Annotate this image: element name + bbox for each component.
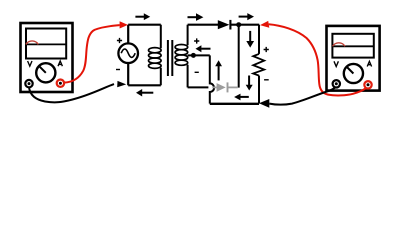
- current arrow: up beside center tap return: [215, 60, 222, 80]
- transformer T1 secondary winding: [175, 25, 188, 88]
- current arrow: right above primary top rail: [135, 13, 150, 20]
- red probe arrowhead at load + node: [260, 21, 269, 28]
- wire: bottom rail of load loop: [210, 103, 259, 105]
- AC source V1 circle: [118, 43, 138, 63]
- black probe arrowhead at node primary-bottom: [117, 81, 126, 87]
- transformer T1 core: [168, 40, 172, 76]
- wire: black test lead from M1 black terminal to primary bottom corner: [29, 84, 114, 102]
- meter M2 label V: [334, 61, 338, 66]
- current arrow: right above rail after D1: [239, 13, 254, 20]
- red probe arrowhead at node primary-top: [120, 21, 128, 28]
- meter M1 display window: [26, 29, 66, 59]
- meter M2 (right multimeter): [327, 26, 380, 91]
- meter M1 scale line: [26, 43, 66, 45]
- meter M2 case: [327, 26, 380, 91]
- center tap junction dot: [191, 53, 196, 58]
- meter M2 label A: [367, 61, 371, 66]
- meter M2 scale line: [332, 45, 373, 47]
- wire: center tap stub: [188, 54, 210, 56]
- meter M1 needle arc: [26, 41, 38, 44]
- diode D1 (top, conducting): [218, 20, 231, 30]
- wire: primary bottom rail: [128, 84, 161, 86]
- meter M1 red terminal: [57, 80, 64, 87]
- wire: rail from D1 cathode to load branch: [230, 24, 259, 26]
- current arrow: down beside resistor bottom lead: [246, 76, 253, 91]
- diode D2 (bottom, not conducting, gray): [212, 82, 237, 92]
- meter M1 label A: [58, 61, 62, 66]
- AC source V1 sine wave: [121, 49, 135, 57]
- wire: center tap return vertical with crossover hop: [210, 55, 214, 103]
- wire: source bottom lead: [127, 63, 129, 85]
- junction node: common cathode dot: [236, 22, 241, 27]
- meter M1 (left multimeter): [21, 23, 73, 92]
- current arrow: left above center tap stub: [196, 45, 211, 52]
- label + (secondary top polarity): [194, 38, 199, 43]
- current arrow: down beside resistor top lead: [246, 31, 254, 48]
- wire: black test lead from load - node to M2 black terminal: [269, 88, 335, 105]
- wire: secondary bottom lead to D2: [188, 86, 209, 88]
- current arrow: left below primary bottom rail: [136, 89, 153, 97]
- wire: red test lead from load + node to M2 red terminal: [269, 24, 366, 95]
- current arrow: right above secondary top rail: [188, 13, 204, 21]
- current arrow: left above bottom rail: [234, 94, 249, 101]
- meter M2 dial pointer: [346, 67, 353, 74]
- label - (load bottom polarity): [264, 79, 269, 81]
- meter M1 dial: [36, 63, 55, 82]
- meter M2 dial: [344, 64, 363, 83]
- label - (secondary bottom polarity): [195, 71, 199, 73]
- wire: secondary top rail to diode D1: [188, 24, 220, 26]
- meter M1 dial pointer: [39, 66, 46, 73]
- wire: source top lead: [127, 25, 129, 44]
- meter M1 case: [21, 23, 73, 92]
- meter M1 black terminal: [25, 80, 32, 87]
- resistor R1 (load): [253, 25, 264, 104]
- AC source V1: [118, 25, 160, 86]
- label + (load top polarity): [264, 47, 269, 52]
- black probe arrowhead at load - node: [259, 99, 269, 108]
- meter M2 red terminal: [364, 81, 371, 88]
- transformer T1 primary winding: [149, 25, 162, 86]
- meter M2 black terminal: [333, 80, 340, 87]
- label + (primary top polarity): [117, 38, 122, 43]
- label - (primary bottom polarity): [116, 69, 120, 71]
- wire: D2 cathode return vertical: [238, 25, 240, 88]
- meter M2 needle arc: [333, 43, 345, 46]
- wire: primary top rail: [128, 24, 161, 26]
- wire: red test lead from M1 red terminal to primary top corner: [64, 25, 120, 83]
- meter M2 display window: [332, 34, 373, 58]
- meter M1 label V: [28, 61, 32, 66]
